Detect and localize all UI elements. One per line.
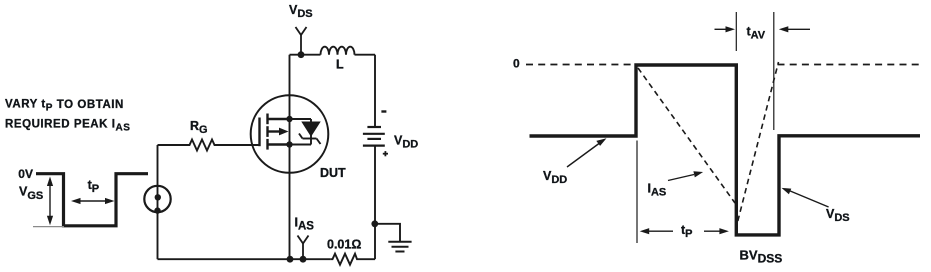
junction: ground tap: [371, 220, 378, 227]
IAS probe Y: [298, 236, 309, 260]
junction: drain node: [286, 116, 292, 122]
VDS pointer arrow: [789, 191, 829, 208]
drain stub: [268, 118, 290, 120]
wire: drain vertical through MOSFET to bottom rail: [289, 55, 291, 260]
VDS waveform (thick): [530, 65, 921, 235]
tP dimension arrow: [640, 228, 729, 234]
VDS probe Y: [296, 27, 307, 55]
svg-text:VDS: VDS: [826, 207, 850, 224]
svg-text:RG: RG: [190, 119, 208, 136]
wire: gate wire left segment: [158, 144, 188, 146]
source stub: [268, 143, 290, 145]
junction: VDS probe node: [298, 51, 305, 58]
MOSFET DUT: [251, 95, 329, 173]
wire: top rail: [290, 54, 321, 56]
VDD pointer arrow: [567, 144, 599, 168]
VGS reference line (thin): [33, 226, 64, 228]
IAS pointer arrow: [668, 175, 694, 181]
gate bar: [258, 118, 260, 147]
note text: [5, 99, 131, 134]
svg-text:IAS: IAS: [295, 216, 315, 233]
tAV arrows: [715, 26, 811, 32]
svg-text:tP: tP: [681, 223, 693, 240]
wire: right branch down to battery: [374, 55, 376, 126]
svg-text:VGS: VGS: [19, 185, 43, 202]
svg-text:DUT: DUT: [320, 166, 346, 180]
junction: source to bottom rail: [287, 256, 294, 263]
svg-text:VDS: VDS: [289, 3, 313, 20]
ground: [388, 242, 411, 252]
gate pulse waveform: [36, 174, 148, 226]
svg-text:tAV: tAV: [747, 25, 766, 42]
zero reference dashed line (left): [526, 64, 633, 66]
svg-text:0V: 0V: [18, 167, 33, 181]
svg-text:VDD: VDD: [394, 134, 418, 151]
resistor 0.01 ohm: [330, 254, 357, 265]
wire: pulse generator up to gate wire: [157, 145, 159, 197]
junction: IAS probe node: [300, 256, 307, 263]
channel dashes: [266, 114, 268, 125]
body diode (avalanche): [290, 119, 321, 145]
wire: gate wire right segment: [217, 144, 259, 146]
wire: bottom rail: [158, 258, 331, 260]
svg-text:tP: tP: [88, 178, 100, 195]
VGS dimension arrow: [47, 177, 53, 226]
battery minus: [381, 110, 386, 112]
wire: bottom rail right: [358, 258, 376, 260]
wire: pulse generator down to bottom rail: [157, 199, 159, 259]
svg-text:VARY tP TO OBTAIN: VARY tP TO OBTAIN: [5, 99, 124, 114]
avalanche dashed ramp: [738, 62, 779, 221]
body stub with arrow: [268, 130, 282, 132]
IAS dashed ramp: [638, 68, 735, 203]
svg-text:BVDSS: BVDSS: [740, 248, 783, 266]
svg-text:0.01Ω: 0.01Ω: [327, 238, 361, 252]
svg-text:IAS: IAS: [648, 182, 667, 199]
tP boundary line: [636, 141, 638, 244]
pulse generator: [144, 186, 170, 212]
svg-text:REQUIRED PEAK IAS: REQUIRED PEAK IAS: [5, 119, 131, 134]
battery plus: [383, 151, 388, 156]
svg-text:L: L: [336, 58, 344, 72]
wire: to ground: [375, 224, 400, 242]
wire: top rail right: [355, 54, 376, 56]
tAV boundary lines: [735, 12, 737, 51]
svg-text:0: 0: [513, 57, 520, 71]
junction: source node: [286, 141, 292, 147]
wire: battery down to bottom rail: [374, 146, 376, 260]
battery VDD: [363, 127, 385, 146]
zero reference dashed line (right): [778, 64, 921, 66]
inductor L: [321, 47, 355, 55]
svg-text:VDD: VDD: [543, 169, 567, 186]
tP dimension arrow: [71, 198, 115, 204]
resistor RG: [187, 140, 217, 151]
